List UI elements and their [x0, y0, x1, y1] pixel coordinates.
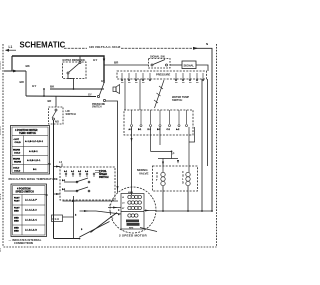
svg-text:120 VOLTS A.C. 60 HZ: 120 VOLTS A.C. 60 HZ: [89, 45, 121, 49]
timer terminal block: [52, 215, 63, 222]
buzzer: [113, 85, 120, 94]
winding row 2: [128, 201, 142, 204]
svg-text:TB: TB: [45, 194, 48, 197]
signal box: [182, 61, 196, 69]
wires speed switch to motor: [63, 200, 119, 202]
drops from pressure box: [124, 79, 126, 110]
svg-text:EXTRA RINSE SW.: EXTRA RINSE SW.: [63, 58, 86, 62]
svg-text:A-1,B-2,C-2,D-1: A-1,B-2,C-2,D-1: [25, 140, 44, 143]
lid switch wire from bus: [55, 97, 57, 108]
svg-text:SWITCH: SWITCH: [172, 98, 182, 102]
svg-text:F G H: F G H: [53, 218, 60, 221]
svg-text:REGULATES WASH TEMPERATURE: REGULATES WASH TEMPERATURE: [9, 177, 58, 181]
svg-text:N: N: [206, 42, 208, 46]
coil returns: [162, 186, 164, 211]
wire top main L1 run: [12, 56, 104, 83]
speed switch box: [60, 167, 115, 200]
svg-text:REV. A: REV. A: [0, 193, 2, 200]
svg-text:SCHEMATIC: SCHEMATIC: [20, 41, 66, 50]
hot coil: [156, 171, 158, 182]
svg-text:PRESSURE: PRESSURE: [156, 73, 171, 77]
wire left drop to lower bus: [25, 71, 27, 96]
svg-text:2 SPEED MOTOR: 2 SPEED MOTOR: [119, 234, 147, 238]
protector dark labels: [126, 220, 139, 223]
svg-text:D: D: [182, 181, 184, 185]
terminal TA arrow: [54, 166, 61, 168]
motor circle: [110, 187, 156, 233]
motor lower-right lead: [140, 228, 157, 232]
motor terminal arrows: [96, 207, 121, 216]
svg-text:BR: BR: [48, 99, 52, 103]
pressure switch long box: [117, 71, 207, 79]
speed switch contact rows: [64, 178, 90, 192]
svg-text:GY: GY: [88, 93, 92, 97]
svg-text:H: H: [156, 171, 158, 175]
svg-text:SPEED SWITCH: SPEED SWITCH: [16, 191, 34, 194]
supply dashed line top: [64, 47, 87, 49]
extra rinse switch leads: [79, 56, 81, 62]
motor right lead: [144, 210, 156, 212]
internal U link: [189, 127, 195, 142]
water level resistor zigzag: [155, 80, 165, 108]
svg-text:L1-D,L2-C: L1-D,L2-C: [25, 220, 37, 222]
svg-text:A-3: A-3: [78, 170, 81, 173]
svg-text:COLD: COLD: [14, 171, 21, 173]
svg-text:O: O: [156, 175, 158, 179]
svg-text:NO: NO: [55, 120, 59, 124]
svg-text:L1-D,L2-D: L1-D,L2-D: [25, 230, 37, 232]
start winding row 4: [128, 214, 138, 217]
signal switch contacts: [151, 64, 153, 66]
motor switch diagonals: [80, 222, 110, 238]
svg-text:22002036: 22002036: [0, 125, 2, 135]
table speed switch: [11, 184, 47, 237]
svg-text:MED: MED: [14, 218, 19, 220]
svg-text:FAST: FAST: [14, 200, 20, 203]
svg-text:A-2: A-2: [71, 170, 74, 173]
wire L1 vertical to feed arrow: [11, 56, 13, 71]
pressure switch center blade: [100, 83, 105, 95]
lid switch box: [49, 107, 64, 124]
svg-text:GY: GY: [101, 79, 105, 83]
svg-text:B-2: B-2: [62, 189, 65, 191]
left margin micro text: [0, 60, 2, 252]
svg-text:SIGNAL SW.: SIGNAL SW.: [150, 55, 166, 59]
svg-text:TA: TA: [48, 163, 51, 166]
svg-text:B-1: B-1: [62, 180, 65, 182]
wires below water temp switch: [131, 127, 133, 195]
divider in motor frame: [121, 211, 144, 213]
table water temp: [11, 126, 50, 175]
svg-text:COLD: COLD: [14, 153, 21, 155]
svg-text:GY: GY: [93, 58, 97, 62]
pressure switch terminals: [121, 73, 204, 81]
svg-text:MED: MED: [14, 228, 19, 230]
svg-text:CONNECTIONS: CONNECTIONS: [14, 241, 33, 245]
svg-text:FAST: FAST: [14, 207, 20, 210]
svg-text:RPM: RPM: [129, 228, 134, 230]
bottom wire to motor: [54, 238, 80, 240]
border left dashed: [2, 44, 4, 247]
extra rinse switch contacts: [67, 72, 69, 74]
winding row 3: [128, 206, 142, 209]
motor inner frame: [121, 194, 144, 230]
svg-text:L1-C,L3-2: L1-C,L3-2: [25, 210, 37, 212]
svg-text:O: O: [182, 174, 184, 178]
water temp terminal labels: [129, 128, 181, 131]
wire signal to pressure bus: [196, 65, 208, 71]
svg-text:L1: L1: [9, 45, 13, 49]
water temp switch box: [124, 110, 193, 135]
svg-text:MAIN: MAIN: [128, 191, 134, 194]
speed switch terminals top: [65, 173, 95, 177]
svg-text:MED: MED: [14, 231, 19, 233]
wire branch to signal switch: [104, 64, 149, 66]
water temp switch terminals: [131, 110, 188, 127]
lid switch contacts: [55, 109, 57, 111]
svg-text:MED: MED: [14, 221, 19, 223]
svg-text:TEMP. SWITCH: TEMP. SWITCH: [19, 132, 36, 135]
junction ties: [43, 89, 45, 96]
svg-text:A-2,B-1,D-1: A-2,B-1,D-1: [27, 159, 41, 162]
motor bottom bus: [156, 210, 212, 212]
svg-text:COLD: COLD: [13, 168, 20, 170]
svg-text:SIGNAL: SIGNAL: [184, 64, 195, 68]
svg-text:FAST: FAST: [14, 197, 20, 200]
svg-text:• HOT: • HOT: [13, 139, 20, 141]
svg-text:C: C: [182, 170, 184, 174]
wire bus y89: [50, 88, 104, 90]
wire feed from border with arrow: [4, 70, 26, 72]
svg-text:COLD: COLD: [15, 142, 22, 144]
svg-text:MED: MED: [14, 211, 19, 213]
svg-text:16010201: 16010201: [0, 60, 2, 70]
svg-text:SWITCH: SWITCH: [99, 176, 109, 179]
supply N wire right: [196, 48, 212, 211]
cold coil: [182, 170, 184, 185]
pressure terminal labels: [121, 82, 199, 84]
winding row 1: [128, 195, 142, 198]
lid switch long drop: [53, 120, 55, 239]
svg-text:SWITCH: SWITCH: [92, 106, 102, 109]
valve feed bus: [151, 150, 172, 152]
svg-text:SWITCH: SWITCH: [66, 112, 76, 116]
mixing valve box: [153, 166, 198, 191]
svg-text:L1-C,L2-F: L1-C,L2-F: [25, 200, 37, 202]
border bottom dashed: [4, 246, 217, 248]
svg-text:GY: GY: [32, 84, 36, 88]
svg-text:P: P: [173, 152, 175, 156]
svg-text:VALVE: VALVE: [139, 172, 149, 176]
signal switch box: [149, 59, 171, 69]
wire L1 lead with left arrow: [6, 49, 17, 51]
extra rinse switch box: [63, 62, 87, 79]
wire switch to signal: [170, 64, 182, 66]
svg-text:WARM: WARM: [14, 161, 21, 164]
mixing valve feeds: [158, 158, 178, 160]
svg-text:WARM: WARM: [13, 149, 20, 152]
svg-text:A-1: A-1: [64, 170, 67, 173]
border right dashed: [216, 44, 218, 247]
wire from pressure switch to water temp box: [106, 101, 118, 193]
svg-text:A-2,B-1: A-2,B-1: [29, 150, 38, 153]
wire bus y96: [26, 95, 96, 98]
speed switch label: [99, 170, 109, 179]
svg-text:WARM: WARM: [13, 158, 20, 161]
